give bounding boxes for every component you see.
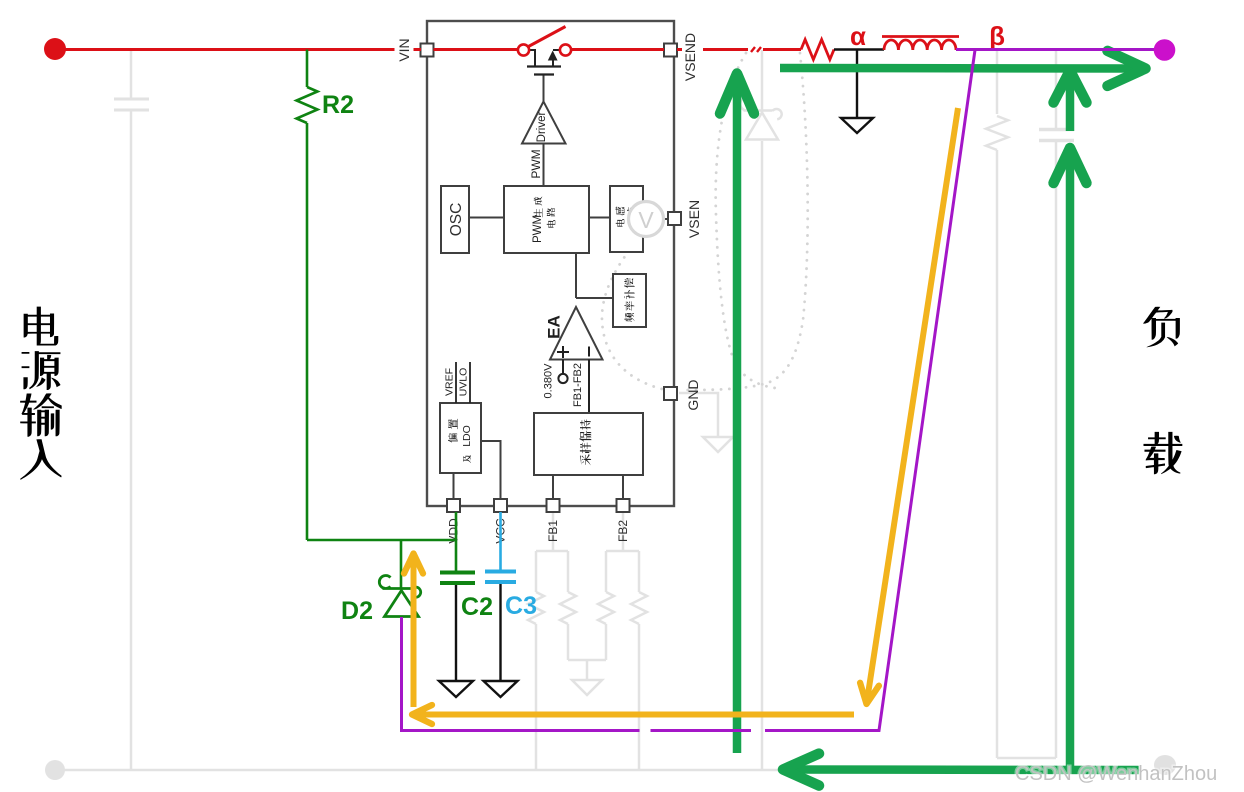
yellow arrow bottom horizontal [414,712,854,718]
label load (Chinese) [1143,307,1180,347]
faded diode D1 triangle [746,113,778,140]
pin VCC [494,499,507,512]
faded input capacitor C1 wire upper [130,50,133,98]
svg-text:VSEND: VSEND [682,33,698,81]
faded FB divider resistor Ra [535,551,538,592]
svg-text:PWM: PWM [532,215,544,243]
faded FB1 top tie [536,550,568,553]
diode D2 triangle [385,591,419,617]
svg-text:C2: C2 [461,593,493,621]
faded FB divider resistor Rd [638,551,641,592]
frequency compensation label [624,313,634,322]
MOSFET Q1 arrow [548,51,558,61]
svg-text:V: V [638,207,654,233]
sample and hold block [534,413,643,475]
MOSFET Q1 drain stub [528,50,535,66]
pin FB2 [617,499,630,512]
inductor current block [610,186,643,252]
green current arrow short above cap [1066,73,1075,132]
diode D2 schottky bar [379,576,420,598]
svg-text:0.380V: 0.380V [543,363,555,399]
bias LDO label [448,433,458,442]
faded output capacitor plates [1039,128,1074,132]
wire inductor block to VSEN pin [643,218,668,220]
MOSFET Q1 source stub [552,54,554,66]
MOSFET Q1 channel bar [527,65,561,67]
wire LDO to VCC pin [481,441,501,499]
pin VIN label [395,33,414,67]
wire break ticks [751,47,761,52]
wire alpha node black [834,48,884,50]
yellow arrow up to D2 [411,556,417,708]
svg-text:OSC: OSC [448,203,465,237]
svg-text:R2: R2 [322,91,354,119]
capacitor C2 lower wire [455,585,457,681]
green current arrow top horizontal [780,64,1144,73]
faded FB2 top tie [606,550,639,553]
svg-text:FB2: FB2 [616,520,630,542]
wire sample block to FB2 pin [622,475,624,499]
faded output capacitor wire lower [1055,142,1058,758]
EA plus input sign [557,346,569,358]
UVLO line [469,362,471,403]
wire output purple top [956,48,1158,51]
inductor current label [616,219,625,227]
pin FB1 [547,499,560,512]
green current arrow right vertical [1066,150,1075,770]
svg-text:Driver: Driver [536,112,548,143]
PWM generator block [504,186,589,253]
wire VIN pin to switch [434,48,518,51]
voltmeter V circle [629,202,664,237]
svg-text:PWM: PWM [529,149,543,178]
pin VSEND label [682,30,703,83]
svg-text:VIN: VIN [396,38,412,61]
OSC block [441,186,469,253]
capacitor C3 plates [485,570,516,574]
faded FB divider ground arrow [572,680,602,695]
faded dotted arc voltmeter to GND pin [602,238,662,389]
green current arrow bottom horizontal [785,765,1139,774]
error amplifier EA triangle [550,307,603,360]
IC chip outline [427,21,674,506]
svg-text:EA: EA [545,315,564,339]
svg-text:D2: D2 [341,597,373,625]
faded diode D1 schottky bar [740,97,781,119]
wire driver to MOSFET gate [543,75,545,102]
svg-text:α: α [850,21,866,51]
faded load resistor wire lower [996,150,999,758]
diode D2 wire [400,540,403,588]
wire switch to VSEND pin [571,48,664,51]
sense resistor red zigzag [801,40,834,60]
capacitor C2 ground arrow [439,681,473,697]
faded input capacitor C1 wire lower [130,111,133,770]
faded FB divider resistor Rc [605,551,608,592]
EA minus input sign [588,347,590,357]
svg-text:β: β [989,21,1005,51]
PWM generator label [534,208,543,217]
faded bottom ground rail [55,769,1140,772]
wire OSC to PWM block [469,217,504,219]
faded input capacitor C1 plates [114,98,149,101]
wire VDD junction down [455,512,458,571]
wire EA node to compensation block [576,297,613,299]
svg-text:GND: GND [685,379,701,410]
resistor R2 zigzag [297,87,318,123]
frequency compensation block [613,274,646,327]
alpha ground wire [856,50,858,119]
pin VSEND [664,44,677,57]
wire PWM block down to EA node [575,253,577,298]
capacitor C3 wire upper [499,512,502,570]
svg-text:VSEN: VSEN [686,200,702,238]
svg-text:FB1: FB1 [546,520,560,542]
resistor R2 bottom wire [306,123,309,540]
input node dot [44,38,66,60]
faded diode D1 wire upper [761,50,764,112]
faded dotted arc alpha measurement [716,53,775,388]
capacitor C3 lower wire [499,584,501,681]
faded FB divider resistor Rb [567,551,570,592]
pin VDD [447,499,460,512]
svg-text:FB1-FB2: FB1-FB2 [572,363,584,407]
capacitor C2 plates [440,571,475,575]
sample and hold label [580,454,591,465]
wire PWM block to inductor-current block [589,217,610,219]
bias LDO block [440,403,481,473]
faded node bottom-left [45,760,65,780]
faded diode D1 wire lower [761,141,764,770]
svg-text:C3: C3 [505,592,537,620]
VREF line [455,362,457,403]
pin VSEN [668,212,681,225]
svg-text:VREF: VREF [444,368,456,396]
EA reference terminal circle [558,374,567,383]
MOSFET Q1 gate bar [534,73,554,75]
wire PWM output up to driver [543,143,545,186]
wire break to sense resistor [763,48,801,51]
switch SW lever [528,27,566,48]
wire EA plus input [562,360,564,375]
purple return diagonal [400,50,975,731]
purple return up to D2 [400,617,403,731]
watermark blob [1154,755,1176,775]
svg-text:LDO: LDO [461,425,473,447]
inductor L1 core bar red [882,35,959,38]
svg-text:CSDN @WenhanZhou: CSDN @WenhanZhou [1015,763,1217,785]
wire LDO to VDD pin [453,473,455,499]
wire input rail red [55,48,421,51]
switch SW right contact [560,44,571,55]
pin GND [664,387,677,400]
yellow arrow diagonal down [867,108,958,702]
faded load resistor zigzag [986,116,1008,150]
faded GND ground wire [679,393,718,437]
inductor L1 red [884,40,956,50]
wire R2 to VDD horizontal [307,539,456,542]
faded FB divider center ground wire [568,659,606,662]
output node dot magenta [1154,39,1176,61]
driver buffer triangle [522,102,566,144]
switch SW left contact [518,44,529,55]
capacitor C3 ground arrow [484,681,518,697]
wire sample block to FB1 pin [552,475,554,499]
label power input (Chinese) [20,439,61,480]
faded load resistor wire upper [996,50,999,114]
svg-text:UVLO: UVLO [458,368,470,397]
faded GND ground arrow [703,437,733,452]
pin VIN [421,44,434,57]
green current arrow up-left (switch current) [733,76,742,754]
faded output capacitor wire upper [1055,50,1058,128]
alpha ground arrow [841,118,873,133]
faded dotted arc beta measurement [682,53,808,390]
wire EA minus input from sample block [588,360,590,414]
faded load bottom wire [997,757,1056,760]
wire VSEND pin to break [677,48,748,51]
resistor R2 top wire [306,50,309,88]
